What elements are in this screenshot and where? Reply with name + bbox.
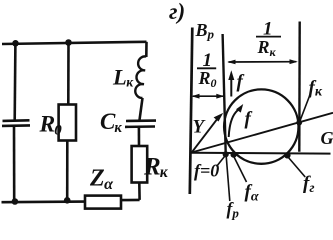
- wire Ck to Rk: [138, 128, 141, 147]
- node fg: [284, 152, 290, 158]
- leader fp: [226, 156, 230, 201]
- dimension line 1/Rk: [229, 61, 297, 63]
- arrowhead dim 1/R0 left: [192, 94, 200, 99]
- axis G horizontal: [192, 152, 331, 155]
- leader fk: [300, 96, 310, 122]
- node bottom middle: [64, 197, 71, 204]
- inductor Lk coil: [135, 56, 146, 98]
- resistor Rk body: [132, 146, 148, 183]
- capacitor Ck bottom plate: [125, 125, 155, 128]
- arrow Y shaft: [192, 118, 219, 153]
- capacitor Ck top plate: [126, 119, 156, 122]
- wire top horizontal: [2, 42, 147, 44]
- wire bottom left segment: [2, 200, 86, 203]
- arrowhead dim 1/R0 right: [216, 94, 224, 99]
- dimension line 1/R0: [193, 95, 223, 97]
- arrowhead dim 1/Rk right: [290, 59, 298, 64]
- leader f=0: [217, 156, 226, 167]
- fraction bar 1/Rk: [256, 36, 281, 38]
- leader fa: [234, 157, 247, 183]
- node top middle: [65, 39, 72, 46]
- wire Rk to bottom: [138, 183, 141, 200]
- arrowhead f up: [228, 70, 234, 80]
- arrowhead Y: [214, 113, 224, 122]
- circle admittance locus: [224, 89, 298, 163]
- wire bottom right segment: [121, 199, 140, 202]
- wire R0 branch lower: [66, 141, 69, 201]
- line tangent left of circle: [223, 34, 226, 153]
- axis Bp vertical: [190, 28, 193, 195]
- arrow f curved shaft: [229, 109, 239, 137]
- node f=0: [223, 151, 229, 157]
- node fp/fa: [231, 152, 237, 158]
- wire right branch top: [145, 42, 148, 57]
- arrowhead dim 1/Rk left: [227, 60, 235, 65]
- capacitor C0 bottom plate: [2, 124, 30, 127]
- line tangent right of circle: [298, 22, 301, 152]
- arrow f up shaft: [230, 77, 232, 97]
- wire left branch lower: [13, 127, 16, 202]
- svg-text:f=0: f=0: [194, 161, 219, 181]
- ray origin to fk: [192, 113, 333, 153]
- fraction bar 1/R0: [197, 67, 216, 69]
- capacitor C0 top plate: [3, 119, 30, 122]
- node bottom left: [12, 198, 19, 205]
- resistor Za body: [85, 196, 121, 209]
- node top left: [12, 40, 19, 47]
- node fk: [296, 120, 302, 126]
- arrowhead f curved: [236, 104, 243, 113]
- wire left branch upper: [13, 44, 16, 121]
- leader fg: [288, 157, 306, 178]
- resistor R0 body: [59, 105, 76, 141]
- svg-text:г): г): [169, 0, 185, 24]
- wire coil to Ck: [140, 98, 143, 120]
- svg-text:G: G: [321, 128, 333, 148]
- wire R0 branch upper: [67, 42, 70, 104]
